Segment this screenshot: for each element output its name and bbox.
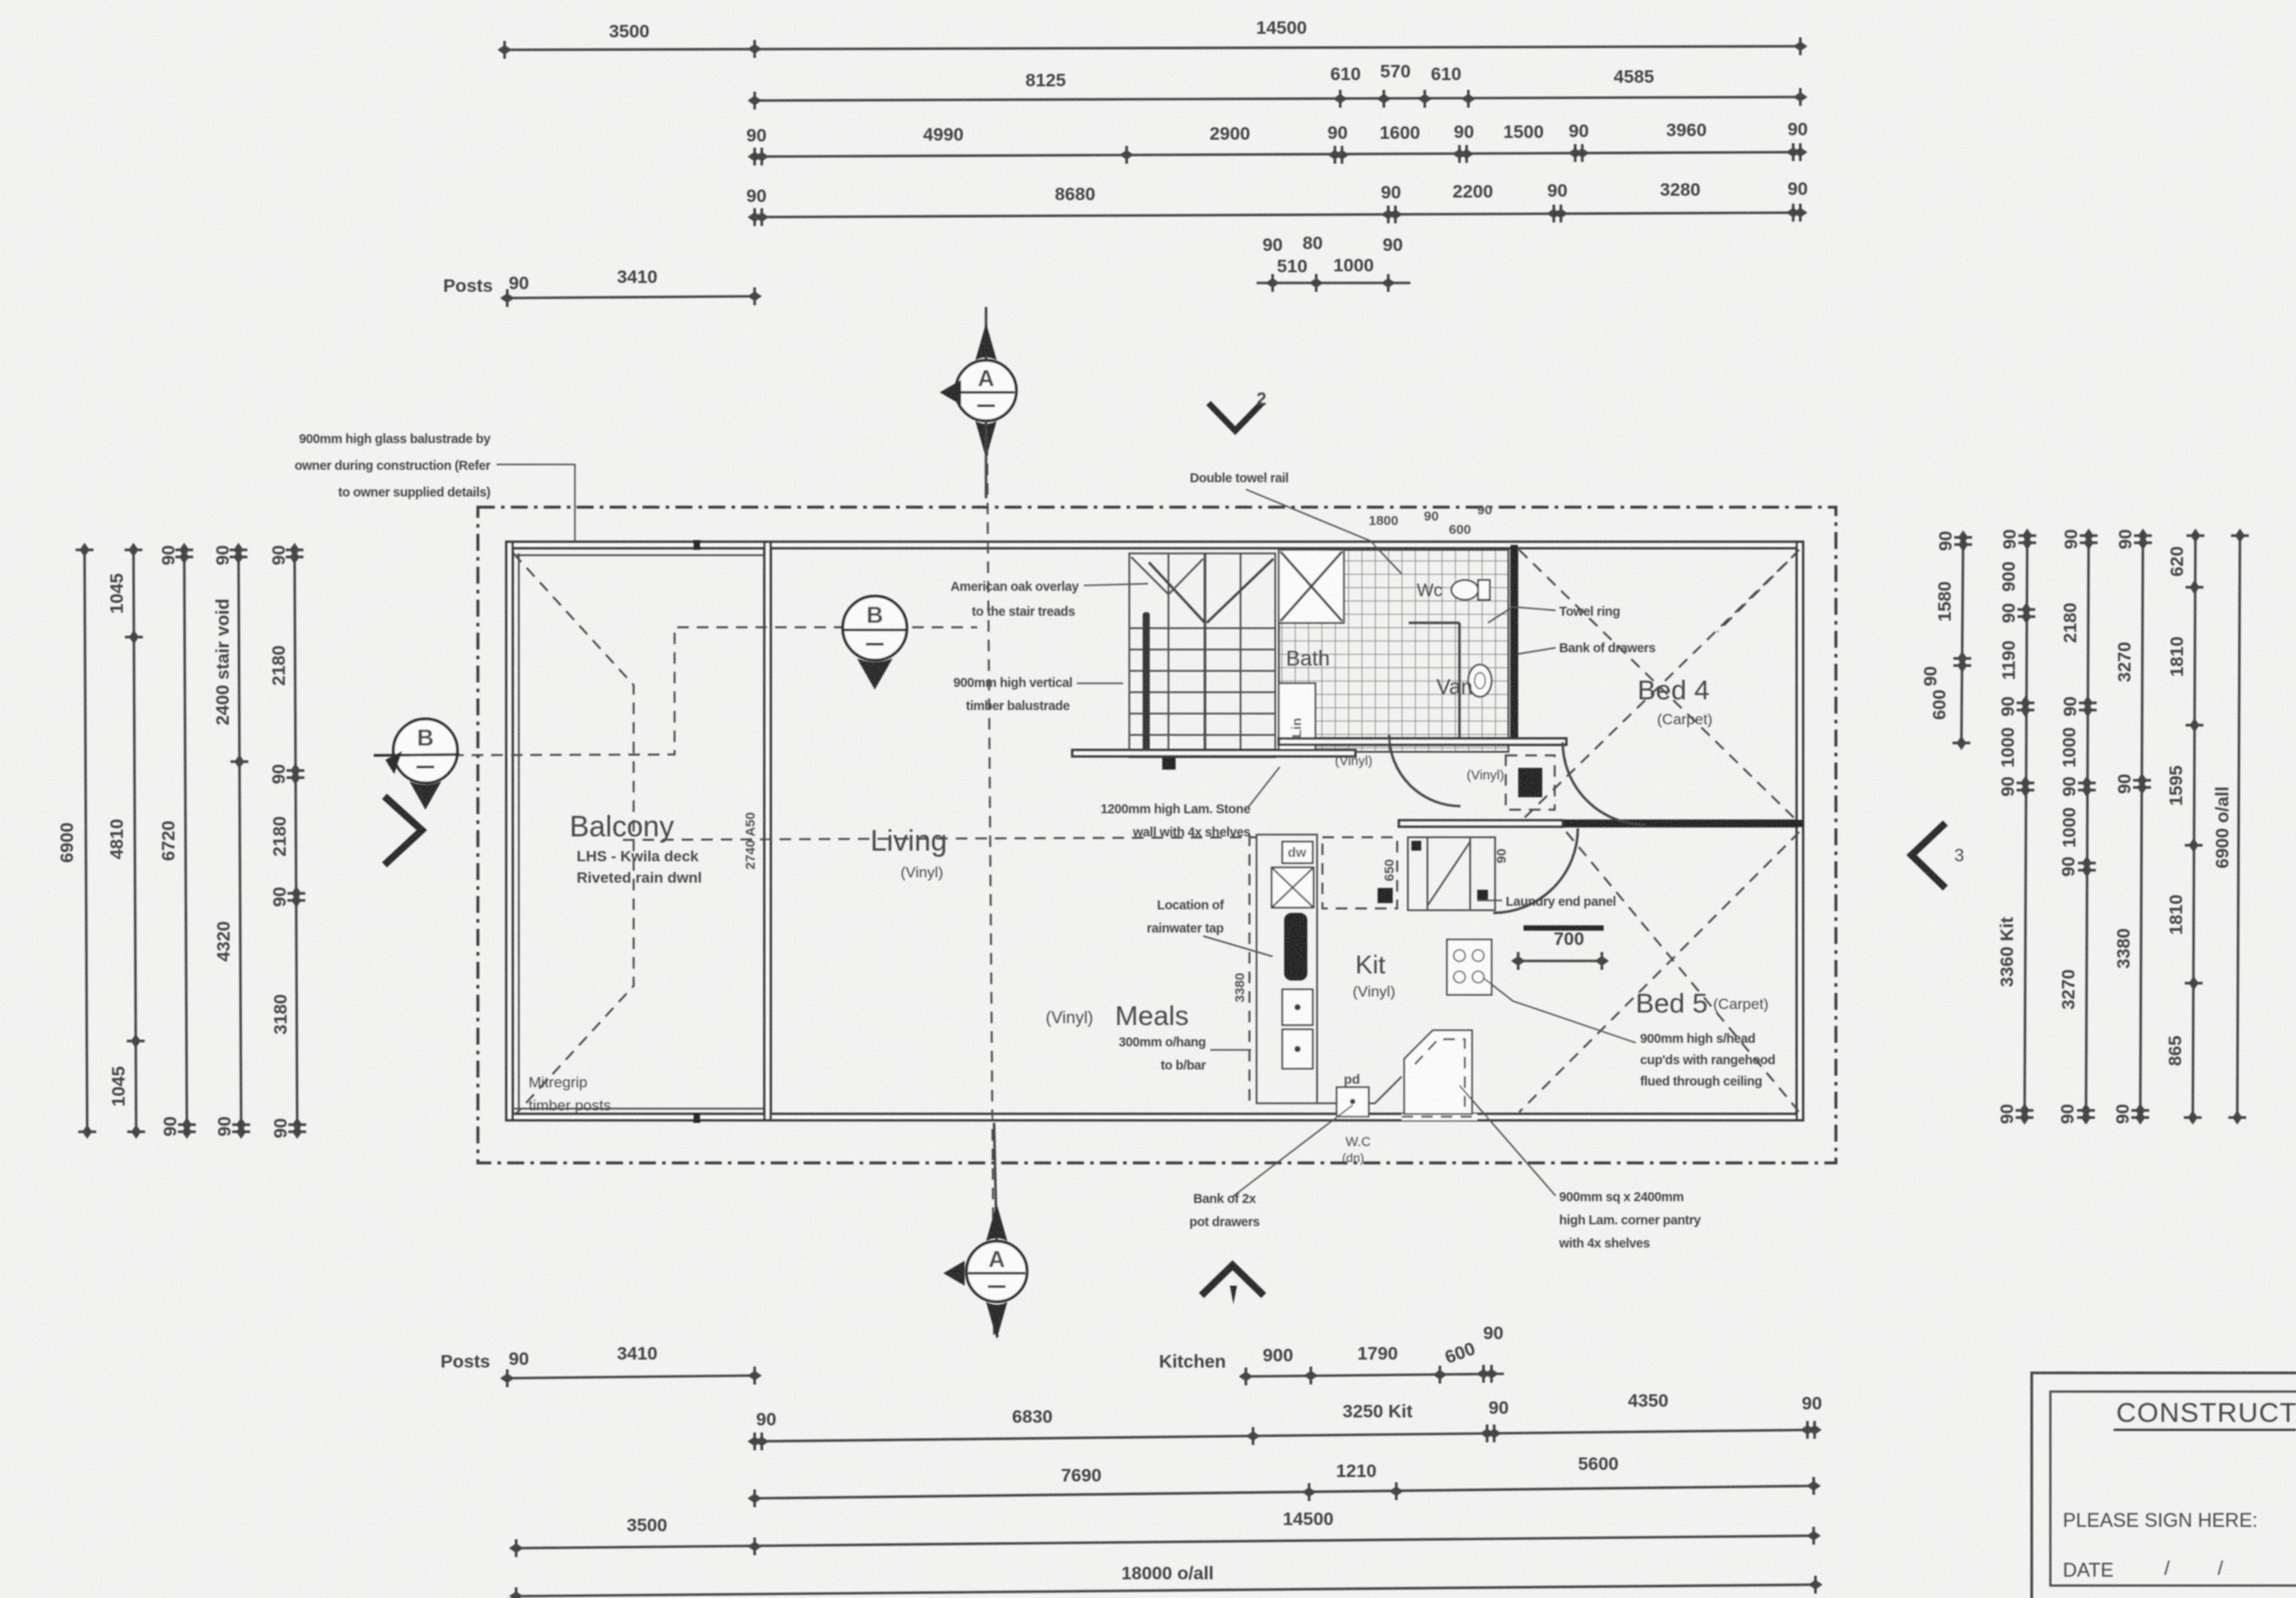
dim row3 90 4990 2900.. [755, 152, 1800, 157]
balcony post marks [693, 540, 700, 550]
section line A-A vertical dashdot [986, 307, 994, 1335]
dim chain L1 6900 [85, 550, 87, 1132]
right wall [1797, 542, 1803, 1120]
bed5 north wall light part [1399, 820, 1563, 827]
kitchen island bench [1257, 835, 1317, 1103]
corner pantry pentagon [1404, 1030, 1472, 1114]
bed4 carpet diagonals [1519, 550, 1799, 823]
bed5 carpet diagonals [1566, 832, 1799, 1112]
dim row 7690 1210 5600 [755, 1486, 1814, 1498]
section line B stepped [374, 627, 977, 755]
dim posts 3410 bottom [507, 1376, 755, 1378]
oven rangehood [1447, 940, 1492, 995]
robe dashed box hall [1506, 755, 1555, 810]
shower [1279, 550, 1344, 623]
laundry closet [1408, 837, 1495, 910]
bottom wall pantry gap dashes [1402, 1114, 1477, 1120]
dim chain L3 90 6720 90 [184, 550, 187, 1132]
dim chain L2 1045 4810 1045 [133, 550, 136, 1132]
bench by pantry [1317, 1063, 1402, 1103]
dim chain L4 90 2400stairvoid 4320 90 [238, 550, 241, 1132]
dim chain R2 90 900 90 1190 90 1000 90 3360Kit [2025, 536, 2027, 1118]
dim kitchen 900 1790 600 90 [1246, 1374, 1504, 1376]
wall balcony/living [764, 542, 771, 1120]
fridge dashed [1322, 837, 1397, 908]
stair treads [1129, 628, 1275, 735]
section line 3-3 horizontal dashdot [623, 837, 1257, 840]
dim chain L5 90 2180 90 2180 90 3180 90 [295, 550, 297, 1132]
dim 18000 o/all [516, 1585, 1815, 1596]
bottom wall [510, 1114, 1803, 1120]
elevation chevron 4 bottom [1201, 1265, 1264, 1295]
small dw box top of island [1282, 842, 1313, 863]
stair V arrows [1149, 562, 1205, 623]
van basin [1468, 665, 1492, 697]
title block inner box [2050, 1392, 2296, 1586]
elevation chevron 3 right [1912, 823, 1945, 888]
dim chain R1 90 1580 90 600 [1961, 537, 1963, 743]
wall hall north van south [1279, 738, 1566, 745]
vanity bench line [1459, 623, 1461, 746]
dim chain R6 6900 o/all [2237, 536, 2240, 1118]
dim row5 small 510/1000 [1257, 282, 1411, 285]
section marker A bottom [994, 1123, 997, 1241]
tap dark blob [1284, 913, 1307, 981]
hip dash top-right corner [1718, 548, 1801, 632]
top wall [510, 542, 1803, 548]
laundry end panel bar [1524, 925, 1604, 931]
door arc bed5 [1493, 828, 1578, 913]
elevation chevron 2 top [1209, 403, 1262, 431]
stair handrail post [1143, 612, 1150, 752]
pot drawers box [1337, 1087, 1369, 1117]
linen cupboard [1279, 683, 1315, 752]
balcony hip dashed line [513, 553, 634, 1117]
wall stairs/bath south [1072, 750, 1355, 756]
dim posts 3410 top [507, 296, 755, 298]
black wall wc/van to bed4 [1510, 545, 1518, 741]
balcony balustrade inner lines [518, 553, 520, 1110]
dim row2 8125.. [755, 97, 1800, 101]
bath tiled floor [1279, 550, 1508, 752]
roof overhang dashed boundary [478, 507, 1836, 1163]
stair stringers [1168, 553, 1169, 757]
drawer boxes [1282, 989, 1313, 1025]
dim chain R5 620 1810 1595 1810 865 [2193, 536, 2195, 1118]
section marker B upper [843, 596, 907, 660]
dim row4 90 8680 .. [755, 213, 1800, 217]
section marker B left [393, 719, 457, 783]
door arc van [1389, 735, 1460, 806]
door arc bed4 [1563, 742, 1645, 825]
bed5 north wall black part [1561, 819, 1803, 827]
elevation chevron 1 left [384, 796, 422, 865]
dim row 3500 14500 bottom [516, 1536, 1814, 1548]
title block outer box [2032, 1373, 2296, 1598]
dim chain R3 90 2180 90 1000 90 1000 90 3270 90 [2086, 536, 2089, 1118]
wc toilet [1451, 580, 1478, 600]
dim chain R4 90 3270 90 3380 90 [2140, 536, 2143, 1118]
dim row1 3500/14500 [505, 46, 1800, 50]
sink X box [1272, 868, 1314, 908]
left wall balcony [506, 542, 513, 1120]
dim row 90 6830 3250Kit 90 4350 90 [755, 1430, 1815, 1441]
stairs outline [1129, 553, 1275, 757]
section marker A top [985, 307, 988, 360]
